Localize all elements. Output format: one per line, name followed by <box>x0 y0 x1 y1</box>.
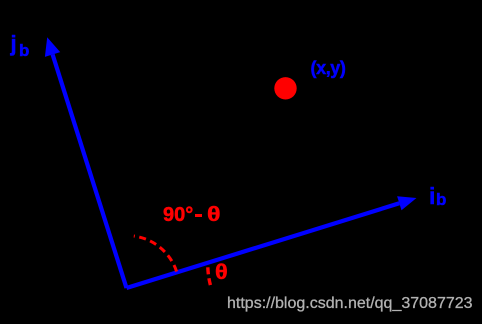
node arrowhead i_b <box>397 196 416 210</box>
node label 90 deg <box>163 205 193 225</box>
node label i subscript b <box>436 191 446 208</box>
node label minus <box>195 214 202 217</box>
node label (x,y) <box>311 59 346 77</box>
node label theta of 90-theta <box>207 205 221 225</box>
watermark text <box>227 294 473 313</box>
wire: dashed arc 90-theta <box>134 236 177 272</box>
node point (x,y) <box>274 77 296 99</box>
node label j subscript b <box>19 42 29 59</box>
wire: dashed arc theta <box>208 267 211 285</box>
node label i <box>429 185 435 208</box>
node arrowhead j_b <box>45 37 60 57</box>
node label theta <box>215 262 228 283</box>
wire: axis j_b shaft <box>53 55 127 289</box>
node label j <box>11 33 17 55</box>
wire: axis i_b shaft <box>127 203 400 288</box>
